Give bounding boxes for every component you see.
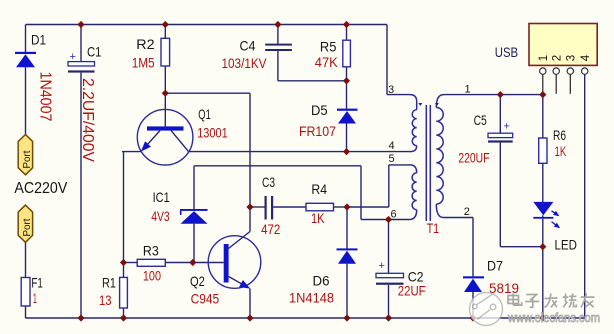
svg-text:+: + — [504, 121, 510, 133]
svg-text:2: 2 — [552, 55, 564, 61]
svg-text:F1: F1 — [31, 274, 43, 290]
svg-text:C4: C4 — [240, 38, 256, 54]
svg-text:C945: C945 — [191, 291, 220, 307]
svg-text:472: 472 — [261, 221, 280, 237]
svg-text:103/1KV: 103/1KV — [222, 55, 268, 71]
svg-text:C3: C3 — [262, 174, 275, 190]
svg-text:D5: D5 — [311, 102, 328, 118]
svg-text:100: 100 — [143, 268, 161, 284]
svg-text:C5: C5 — [474, 112, 487, 128]
svg-text:2: 2 — [464, 206, 470, 218]
svg-text:+: + — [379, 260, 385, 272]
svg-text:1: 1 — [33, 290, 37, 306]
svg-text:Port: Port — [22, 150, 33, 168]
svg-text:D7: D7 — [487, 258, 503, 274]
svg-text:2.2UF/400V: 2.2UF/400V — [79, 78, 96, 162]
svg-text:1K: 1K — [311, 210, 325, 226]
svg-text:R6: R6 — [553, 127, 566, 143]
svg-text:R3: R3 — [143, 243, 159, 259]
svg-text:D1: D1 — [31, 32, 46, 48]
svg-text:Q1: Q1 — [198, 106, 211, 122]
svg-text:C1: C1 — [87, 44, 102, 60]
svg-text:Q2: Q2 — [190, 273, 205, 289]
svg-text:47K: 47K — [315, 54, 339, 70]
svg-text:1: 1 — [465, 84, 471, 96]
svg-text:1M5: 1M5 — [132, 55, 155, 71]
svg-text:3: 3 — [566, 55, 578, 61]
svg-text:IC1: IC1 — [153, 189, 170, 205]
svg-text:3: 3 — [388, 84, 394, 96]
svg-text:R2: R2 — [136, 36, 155, 52]
svg-text:+: + — [70, 51, 76, 63]
svg-text:22UF: 22UF — [398, 283, 426, 299]
svg-text:1: 1 — [538, 55, 550, 61]
svg-text:6: 6 — [391, 209, 397, 221]
svg-text:4V3: 4V3 — [151, 208, 170, 224]
svg-text:5: 5 — [389, 153, 395, 165]
svg-text:USB: USB — [495, 44, 518, 60]
svg-text:Port: Port — [22, 218, 33, 236]
svg-text:13: 13 — [99, 292, 112, 308]
svg-text:1K: 1K — [555, 143, 567, 159]
svg-text:D6: D6 — [313, 273, 330, 289]
svg-text:220UF: 220UF — [458, 149, 489, 165]
svg-text:4: 4 — [580, 54, 592, 61]
svg-text:AC220V: AC220V — [14, 180, 68, 197]
svg-text:T1: T1 — [427, 220, 440, 236]
svg-text:www.elecfans.com: www.elecfans.com — [507, 311, 600, 325]
svg-text:R5: R5 — [320, 39, 337, 55]
svg-text:R1: R1 — [102, 275, 116, 291]
svg-text:4: 4 — [389, 140, 395, 152]
svg-text:13001: 13001 — [197, 124, 228, 140]
svg-text:R4: R4 — [311, 181, 327, 197]
svg-text:1N4007: 1N4007 — [37, 72, 54, 122]
svg-text:1N4148: 1N4148 — [289, 290, 334, 306]
svg-text:LED: LED — [555, 237, 578, 253]
svg-text:FR107: FR107 — [299, 123, 336, 139]
